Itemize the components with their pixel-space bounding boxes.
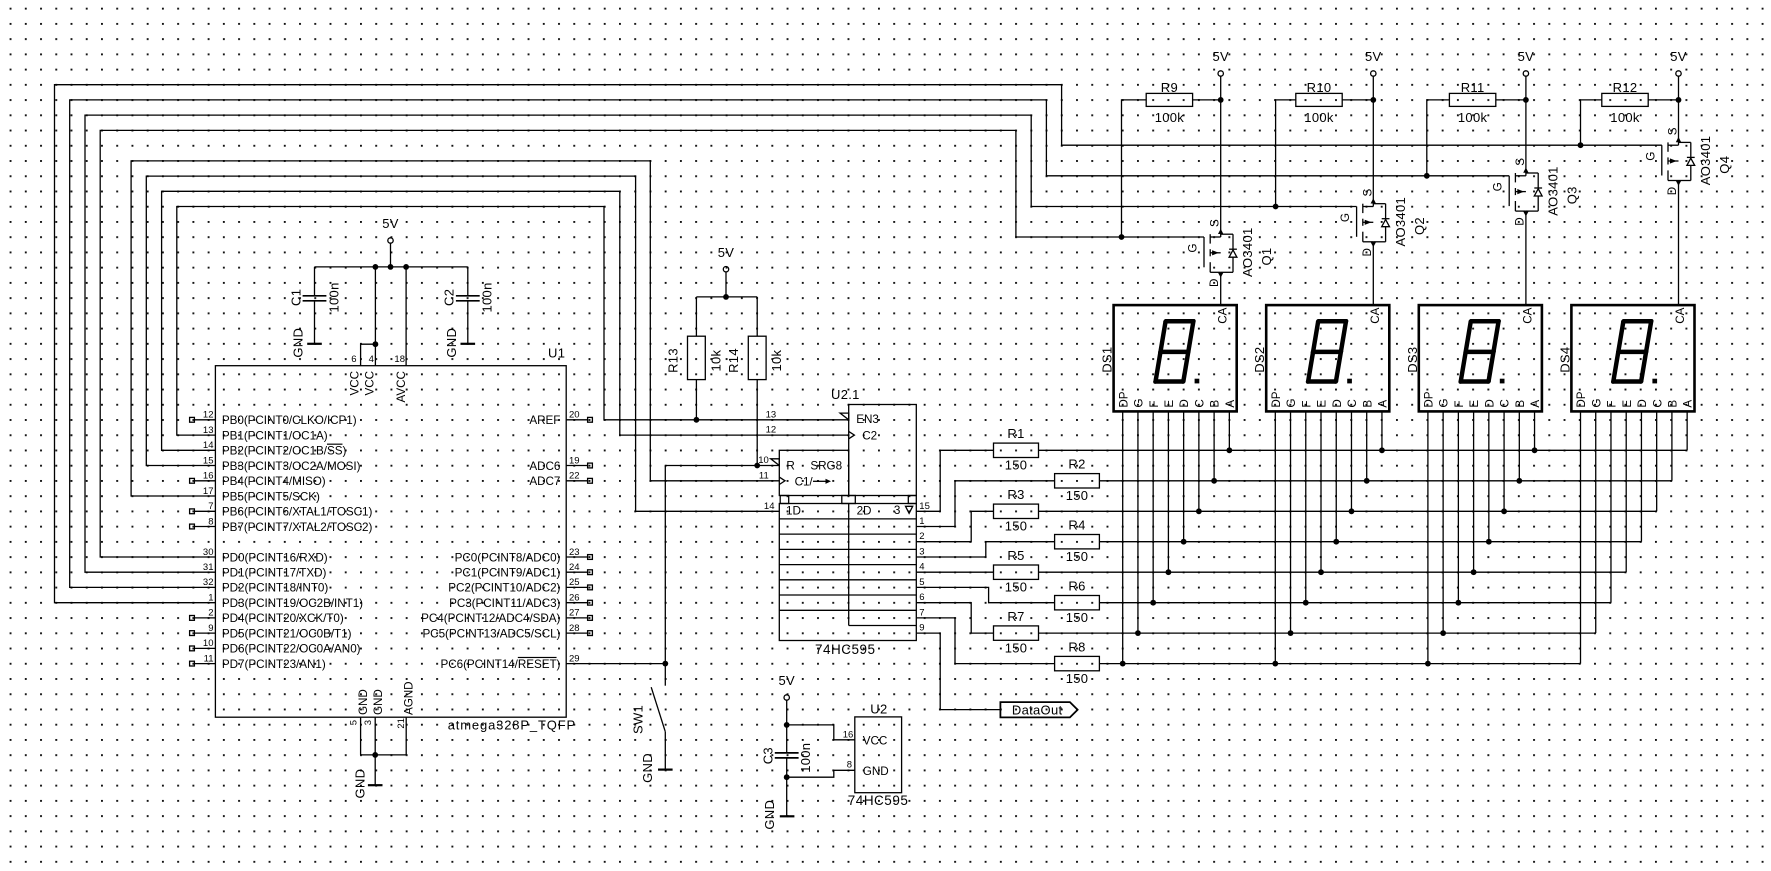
svg-text:PD4(PCINT20/XCK/T0): PD4(PCINT20/XCK/T0): [222, 612, 344, 625]
svg-text:C: C: [1651, 399, 1664, 407]
svg-text:100n: 100n: [480, 282, 495, 312]
wire Q2 drain to DS2 CA: [1372, 242, 1374, 305]
svg-text:17: 17: [203, 486, 214, 497]
svg-text:10: 10: [203, 638, 214, 649]
svg-text:16: 16: [843, 730, 854, 741]
wire U2.1 pin5 to R6: [916, 587, 1054, 602]
svg-text:AO3401: AO3401: [1240, 227, 1255, 277]
svg-text:5V: 5V: [718, 245, 735, 260]
display DS1 7-segment common anode: [1100, 305, 1237, 411]
svg-text:U2: U2: [870, 702, 887, 717]
transistor Q1 AO3401 p-mosfet: [1187, 219, 1275, 287]
svg-text:5: 5: [919, 577, 924, 588]
svg-text:23: 23: [569, 547, 580, 558]
svg-text:PB3(PCINT3/OC2A/MOSI): PB3(PCINT3/OC2A/MOSI): [222, 460, 361, 473]
svg-text:150: 150: [1066, 610, 1089, 625]
wire net C1 C2 grounds: [315, 301, 468, 344]
svg-text:S: S: [1209, 219, 1222, 227]
svg-text:150: 150: [1066, 549, 1089, 564]
svg-text:74HC595: 74HC595: [848, 793, 909, 808]
svg-text:PB4(PCINT4/MISO): PB4(PCINT4/MISO): [222, 475, 326, 488]
svg-text:R7: R7: [1007, 609, 1024, 624]
wire net 5V to R9 and Q1 source: [1193, 76, 1224, 237]
svg-text:ADC6: ADC6: [529, 460, 560, 473]
resistor R2 150: [1055, 457, 1100, 504]
wire net 5V to R10 and Q2 source: [1342, 76, 1376, 206]
svg-text:10k: 10k: [769, 349, 784, 371]
svg-text:B: B: [1209, 400, 1222, 408]
svg-text:atmega328P_TQFP: atmega328P_TQFP: [448, 718, 576, 733]
svg-text:F: F: [1606, 401, 1619, 408]
svg-text:PB2(PCINT2/OC1B/SS): PB2(PCINT2/OC1B/SS): [222, 445, 347, 458]
svg-text:74HC595: 74HC595: [815, 642, 876, 657]
svg-text:2: 2: [919, 531, 924, 542]
svg-text:Q2: Q2: [1412, 217, 1427, 235]
wire U2.1 pin15 to R1: [916, 450, 993, 511]
wire net segment F: R6 to DS1-DS4: [1099, 411, 1611, 605]
svg-text:5: 5: [348, 720, 359, 725]
wire R10 left lead to Q2 gate net: [1273, 100, 1296, 210]
capacitor C1 100n: [288, 282, 341, 312]
svg-text:C2: C2: [442, 289, 457, 306]
wire R14 lower lead to RESET net: [754, 380, 760, 469]
svg-text:E: E: [1621, 400, 1634, 408]
svg-text:PB5(PCINT5/SCK): PB5(PCINT5/SCK): [222, 490, 320, 503]
svg-text:R12: R12: [1613, 80, 1638, 95]
svg-text:D: D: [1178, 399, 1191, 407]
wire net segment C: R3 to DS1-DS4: [1039, 411, 1657, 514]
display DS4 7-segment common anode: [1557, 305, 1694, 411]
svg-text:PB6(PCINT6/XTAL1/TOSC1): PB6(PCINT6/XTAL1/TOSC1): [222, 506, 373, 519]
svg-text:32: 32: [203, 577, 214, 588]
svg-text:3: 3: [894, 504, 900, 517]
svg-text:DS4: DS4: [1557, 347, 1572, 373]
svg-text:AGND: AGND: [403, 681, 416, 715]
svg-text:5V: 5V: [382, 216, 399, 231]
svg-text:GND: GND: [353, 769, 368, 799]
svg-text:PD1(PCINT17/TXD): PD1(PCINT17/TXD): [222, 567, 327, 580]
wire R13 lower lead to EN3 net: [694, 380, 700, 423]
svg-text:100k: 100k: [1155, 110, 1185, 125]
svg-text:150: 150: [1005, 640, 1028, 655]
svg-text:R1: R1: [1007, 426, 1024, 441]
resistor R11 100k: [1449, 80, 1495, 125]
power 5V at U2: [778, 673, 795, 700]
svg-text:F: F: [1300, 401, 1313, 408]
svg-text:28: 28: [569, 623, 580, 634]
wire net 5V to R11 and Q3 source: [1496, 76, 1529, 176]
capacitor C2 100n: [442, 282, 495, 312]
svg-text:G: G: [1644, 152, 1657, 161]
wire U2.1 pin4 to R5: [916, 571, 993, 573]
power 5V at Q3: [1518, 49, 1535, 76]
svg-text:GND: GND: [762, 800, 777, 830]
wire Q4 drain to DS4 CA: [1678, 181, 1680, 306]
svg-text:27: 27: [569, 608, 580, 619]
svg-text:C: C: [1193, 399, 1206, 407]
wire net segment DP: R8 to DS1-DS4: [1099, 411, 1580, 666]
svg-text:1: 1: [919, 516, 924, 527]
svg-text:DataOut: DataOut: [1012, 702, 1063, 717]
svg-text:10: 10: [758, 455, 769, 466]
svg-text:R11: R11: [1461, 80, 1485, 95]
wire Q3 drain to DS3 CA: [1525, 211, 1527, 305]
svg-text:C3: C3: [760, 747, 775, 764]
svg-text:R10: R10: [1307, 80, 1332, 95]
IC U2 74HC595 power pins: [843, 702, 909, 808]
svg-text:PD3(PCINT19/OC2B/INT1): PD3(PCINT19/OC2B/INT1): [222, 597, 363, 610]
wire net PB5 to U2.1 pin11 C1: [131, 161, 779, 496]
svg-text:R6: R6: [1068, 578, 1085, 593]
svg-text:D: D: [1331, 399, 1344, 407]
svg-text:C2: C2: [862, 430, 877, 443]
svg-text:C1/: C1/: [795, 476, 814, 489]
resistor R12 100k: [1602, 80, 1648, 125]
svg-text:100n: 100n: [326, 282, 341, 312]
svg-text:PC3(PCINT11/ADC3): PC3(PCINT11/ADC3): [449, 597, 560, 610]
svg-text:100k: 100k: [1610, 110, 1640, 125]
svg-text:D: D: [1361, 248, 1374, 256]
svg-text:F: F: [1453, 401, 1466, 408]
svg-text:1D: 1D: [786, 505, 801, 518]
svg-text:100k: 100k: [1458, 110, 1488, 125]
svg-text:3: 3: [363, 720, 374, 725]
svg-text:VCC: VCC: [349, 371, 362, 396]
svg-text:S: S: [1667, 127, 1680, 135]
svg-text:CA: CA: [1674, 307, 1687, 323]
svg-text:GND: GND: [863, 765, 889, 778]
svg-text:AO3401: AO3401: [1545, 166, 1560, 216]
wire net PB2 to U2.1 pin12 C2: [162, 191, 849, 450]
svg-text:4: 4: [919, 562, 924, 573]
svg-text:15: 15: [919, 501, 930, 512]
wire U2.1 pin7 to R8: [916, 618, 1054, 664]
svg-text:C: C: [1499, 399, 1512, 407]
ground symbol at C3: [762, 800, 794, 830]
svg-text:14: 14: [764, 501, 775, 512]
svg-text:150: 150: [1066, 671, 1089, 686]
svg-text:PD2(PCINT18/INT0): PD2(PCINT18/INT0): [222, 582, 328, 595]
svg-text:E: E: [1163, 400, 1176, 408]
wire net segment D: R4 to DS1-DS4: [1099, 411, 1641, 544]
svg-text:G: G: [1492, 182, 1505, 191]
wire net 5V to R13 R14: [696, 272, 757, 336]
svg-text:150: 150: [1066, 488, 1089, 503]
svg-text:2: 2: [208, 608, 213, 619]
wire R12 left lead to Q4 gate net: [1578, 100, 1602, 148]
resistor R3 150: [994, 487, 1039, 534]
svg-text:C1: C1: [288, 289, 303, 306]
svg-text:PC5(PCINT13/ADC5/SCL): PC5(PCINT13/ADC5/SCL): [422, 627, 560, 640]
resistor R14 10k: [726, 336, 784, 379]
wire net segment A: R1 to DS1-DS4: [1039, 411, 1688, 453]
svg-text:G: G: [1285, 399, 1298, 408]
svg-text:Q3: Q3: [1564, 186, 1579, 204]
svg-text:D: D: [1513, 217, 1526, 225]
svg-text:PB7(PCINT7/XTAL2/TOSC2): PB7(PCINT7/XTAL2/TOSC2): [222, 521, 373, 534]
svg-text:PC4(PCINT12/ADC4/SDA): PC4(PCINT12/ADC4/SDA): [421, 612, 560, 625]
svg-text:DP: DP: [1423, 391, 1436, 407]
display DS3 7-segment common anode: [1405, 305, 1542, 411]
power 5V above R13 R14: [718, 245, 735, 272]
svg-text:18: 18: [394, 354, 405, 365]
IC U2.1 74HC595 shift register: [758, 387, 930, 657]
svg-text:DP: DP: [1270, 391, 1283, 407]
svg-text:S: S: [1361, 189, 1374, 197]
wire R9 left lead to Q1 gate net: [1119, 100, 1147, 240]
ground symbol at C2: [444, 328, 475, 358]
svg-text:A: A: [1682, 400, 1695, 408]
svg-text:8: 8: [847, 759, 852, 770]
svg-text:GND: GND: [357, 689, 370, 715]
svg-text:R14: R14: [726, 348, 741, 373]
IC U1 atmega328P_TQFP: [190, 346, 593, 733]
power 5V at Q4: [1670, 49, 1687, 76]
svg-text:PD5(PCINT21/OC0B/T1): PD5(PCINT21/OC0B/T1): [222, 627, 352, 640]
svg-text:13: 13: [203, 425, 214, 436]
svg-text:5V: 5V: [1670, 49, 1687, 64]
svg-text:25: 25: [569, 577, 580, 588]
svg-text:6: 6: [351, 354, 356, 365]
svg-text:GND: GND: [444, 328, 459, 358]
svg-text:4: 4: [369, 354, 374, 365]
svg-text:PD7(PCINT23/AN1): PD7(PCINT23/AN1): [222, 658, 326, 671]
wire U2.1 pin9 to DataOut: [916, 633, 1000, 710]
svg-text:D: D: [1483, 399, 1496, 407]
svg-text:29: 29: [569, 653, 580, 664]
svg-text:26: 26: [569, 593, 580, 604]
svg-text:7: 7: [208, 501, 213, 512]
transistor Q4 AO3401 p-mosfet: [1644, 127, 1732, 195]
wire net PD1 to Q2 gate: [85, 115, 1357, 572]
wire net segment E: R5 to DS1-DS4: [1039, 411, 1627, 575]
svg-text:PC0(PCINT8/ADC0): PC0(PCINT8/ADC0): [455, 551, 561, 564]
svg-text:31: 31: [203, 562, 214, 573]
wire net PD3 to Q4 gate: [55, 85, 1662, 603]
svg-text:SW1: SW1: [631, 705, 646, 734]
svg-text:9: 9: [208, 623, 213, 634]
wire net PB3 to U2.1 pin14 1D: [146, 176, 779, 511]
svg-text:E: E: [1316, 400, 1329, 408]
power 5V at Q1: [1212, 49, 1229, 76]
svg-text:GND: GND: [291, 328, 306, 358]
svg-text:10k: 10k: [708, 349, 723, 371]
wire net PD0 to Q1 gate: [100, 130, 1204, 557]
svg-text:VCC: VCC: [363, 371, 376, 396]
wire R11 left lead to Q3 gate net: [1424, 100, 1450, 179]
resistor R8 150: [1055, 639, 1100, 686]
svg-text:R5: R5: [1007, 548, 1024, 563]
svg-text:R8: R8: [1068, 639, 1085, 654]
svg-text:R3: R3: [1007, 487, 1024, 502]
svg-text:8: 8: [208, 516, 213, 527]
wire net RESET: U1 pin29, SW1, R14, U2.1 pin10: [566, 466, 779, 667]
svg-text:13: 13: [766, 409, 777, 420]
wire net segment G: R7 to DS1-DS4: [1039, 411, 1596, 636]
wire net PB1 to U2.1 pin13 EN3: [177, 207, 849, 436]
svg-text:PC2(PCINT10/ADC2): PC2(PCINT10/ADC2): [448, 582, 560, 595]
svg-text:150: 150: [1005, 519, 1028, 534]
power 5V at Q2: [1365, 49, 1382, 76]
port DataOut: [1000, 702, 1077, 717]
svg-text:PD0(PCINT16/RXD): PD0(PCINT16/RXD): [222, 551, 328, 564]
wire U2.1 pin3 to R4: [916, 542, 1054, 557]
svg-text:5V: 5V: [1518, 49, 1535, 64]
svg-text:SRG8: SRG8: [810, 460, 842, 473]
svg-text:150: 150: [1005, 580, 1028, 595]
svg-text:150: 150: [1005, 458, 1028, 473]
resistor R10 100k: [1296, 80, 1342, 125]
svg-text:A: A: [1224, 400, 1237, 408]
wire net U1 GND pins 5 3 21: [361, 717, 407, 785]
resistor R7 150: [994, 609, 1039, 656]
svg-text:R13: R13: [665, 348, 680, 373]
svg-text:PB1(PCINT1/OC1A): PB1(PCINT1/OC1A): [222, 429, 328, 442]
svg-text:DS1: DS1: [1100, 347, 1115, 373]
svg-text:GND: GND: [372, 689, 385, 715]
svg-text:VCC: VCC: [863, 734, 888, 747]
svg-text:G: G: [1590, 399, 1603, 408]
wire U2.1 pin6 to R7: [916, 603, 993, 633]
svg-text:DS2: DS2: [1252, 347, 1267, 373]
svg-text:Q1: Q1: [1259, 248, 1274, 266]
transistor Q3 AO3401 p-mosfet: [1492, 158, 1580, 226]
svg-text:AO3401: AO3401: [1393, 197, 1408, 247]
svg-text:5V: 5V: [1212, 49, 1229, 64]
svg-text:DP: DP: [1575, 391, 1588, 407]
svg-text:PD6(PCINT22/OC0A/AN0): PD6(PCINT22/OC0A/AN0): [222, 643, 361, 656]
svg-text:U1: U1: [548, 346, 565, 361]
svg-text:9: 9: [919, 623, 924, 634]
svg-text:G: G: [1339, 213, 1352, 222]
svg-text:A: A: [1529, 400, 1542, 408]
ground symbol below U1: [353, 769, 383, 799]
svg-text:3: 3: [919, 547, 924, 558]
switch SW1: [631, 664, 666, 770]
ground symbol at C1: [291, 328, 322, 358]
svg-text:EN3: EN3: [856, 413, 879, 426]
wire U2.1 pin2 to R3: [916, 511, 993, 541]
svg-text:6: 6: [919, 592, 924, 603]
wire net segment B: R2 to DS1-DS4: [1099, 411, 1672, 483]
svg-text:11: 11: [204, 653, 214, 664]
svg-text:ADC7: ADC7: [529, 475, 560, 488]
svg-text:E: E: [1468, 400, 1481, 408]
svg-text:AVCC: AVCC: [395, 371, 408, 402]
svg-text:2D: 2D: [857, 505, 872, 518]
svg-text:7: 7: [919, 607, 924, 618]
svg-text:D: D: [1666, 187, 1679, 195]
svg-text:S: S: [1514, 158, 1527, 166]
svg-text:R9: R9: [1161, 80, 1178, 95]
resistor R13 10k: [665, 336, 723, 379]
svg-text:G: G: [1133, 399, 1146, 408]
wire net 5V to R12 and Q4 source: [1648, 76, 1681, 145]
svg-text:A: A: [1377, 400, 1390, 408]
svg-text:CA: CA: [1369, 307, 1382, 323]
svg-text:14: 14: [203, 440, 214, 451]
svg-text:DS3: DS3: [1405, 347, 1420, 373]
svg-text:F: F: [1148, 401, 1161, 408]
svg-text:D: D: [1208, 279, 1221, 287]
svg-text:11: 11: [759, 470, 769, 481]
svg-text:19: 19: [569, 455, 580, 466]
svg-text:5V: 5V: [778, 673, 795, 688]
wire net PD2 to Q3 gate: [70, 100, 1510, 588]
resistor R4 150: [1055, 517, 1100, 564]
svg-text:D: D: [1636, 399, 1649, 407]
svg-text:AREF: AREF: [529, 414, 560, 427]
svg-text:PC1(PCINT9/ADC1): PC1(PCINT9/ADC1): [455, 567, 561, 580]
svg-text:15: 15: [203, 455, 214, 466]
svg-text:CA: CA: [1216, 307, 1229, 323]
svg-text:DP: DP: [1117, 391, 1130, 407]
svg-text:R: R: [786, 460, 794, 473]
transistor Q2 AO3401 p-mosfet: [1339, 189, 1427, 257]
svg-text:21: 21: [396, 718, 407, 729]
ground symbol at SW1: [640, 753, 672, 783]
svg-text:R2: R2: [1068, 457, 1085, 472]
svg-text:100k: 100k: [1304, 110, 1334, 125]
svg-text:20: 20: [569, 410, 580, 421]
svg-text:U2.1: U2.1: [831, 387, 860, 402]
svg-text:AO3401: AO3401: [1698, 136, 1713, 186]
svg-text:G: G: [1187, 244, 1200, 253]
wire Q1 drain to DS1 CA: [1220, 272, 1222, 305]
resistor R5 150: [994, 548, 1039, 595]
svg-text:G: G: [1438, 399, 1451, 408]
svg-text:B: B: [1361, 400, 1374, 408]
power 5V above U1: [382, 216, 399, 243]
resistor R1 150: [994, 426, 1039, 473]
svg-text:R4: R4: [1068, 517, 1085, 532]
wire net 5V to U2 pin16 and C3: [784, 700, 855, 753]
wire net C3 GND to U2 pin8: [784, 758, 855, 816]
svg-text:22: 22: [569, 471, 580, 482]
svg-text:30: 30: [203, 547, 214, 558]
capacitor C3 100n: [760, 743, 813, 773]
svg-text:5V: 5V: [1365, 49, 1382, 64]
svg-text:CA: CA: [1522, 307, 1535, 323]
svg-text:24: 24: [569, 562, 580, 573]
svg-text:12: 12: [203, 410, 214, 421]
svg-text:B: B: [1514, 400, 1527, 408]
wire net 5V rail above U1: [315, 243, 468, 366]
svg-text:PB0(PCINT0/CLKO/ICP1): PB0(PCINT0/CLKO/ICP1): [222, 414, 357, 427]
resistor R9 100k: [1146, 80, 1192, 125]
svg-text:100n: 100n: [798, 743, 813, 773]
wire U2.1 pin1 to R2: [916, 481, 1054, 527]
display DS2 7-segment common anode: [1252, 305, 1389, 411]
svg-text:Q4: Q4: [1717, 156, 1732, 174]
svg-text:12: 12: [766, 425, 777, 436]
svg-text:C: C: [1346, 399, 1359, 407]
resistor R6 150: [1055, 578, 1100, 625]
svg-text:16: 16: [203, 471, 214, 482]
svg-text:GND: GND: [640, 753, 655, 783]
svg-text:1: 1: [208, 593, 213, 604]
svg-text:PC6(PCINT14/RESET): PC6(PCINT14/RESET): [440, 658, 560, 671]
svg-text:B: B: [1667, 400, 1680, 408]
